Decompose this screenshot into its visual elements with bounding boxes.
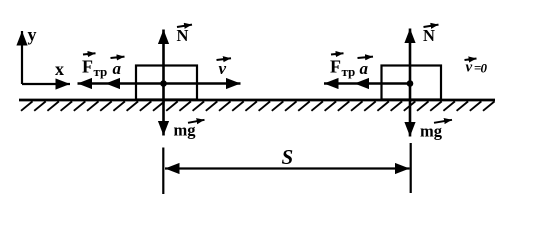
vector hat over F (right) [331, 53, 344, 54]
svg-text:F: F [330, 57, 341, 77]
svg-text:mg: mg [420, 122, 443, 141]
block 1 center dot [160, 80, 167, 87]
svg-text:a: a [113, 59, 122, 78]
vector hat over N (left) [177, 25, 192, 27]
friction force arrow (left block) [78, 82, 164, 85]
force N arrow (right block) [409, 29, 412, 84]
friction force arrow (right block) [324, 82, 410, 85]
svg-text:тр: тр [342, 64, 356, 79]
svg-text:mg: mg [174, 121, 197, 140]
ground line [19, 99, 495, 102]
vector hat over N (right) [424, 25, 439, 27]
force mg arrow (right block) [409, 84, 412, 137]
vector hat over mg (right) [434, 120, 452, 123]
svg-text:N: N [423, 26, 435, 45]
acceleration arrowhead (right block) [355, 78, 370, 89]
svg-text:N: N [177, 26, 189, 45]
force N arrow (left block) [162, 30, 165, 84]
svg-text:F: F [82, 57, 93, 77]
vector hat over v=0 [465, 59, 477, 61]
velocity v arrow [164, 82, 241, 85]
svg-text:a: a [360, 59, 369, 78]
vector hat over mg (left) [188, 120, 205, 123]
svg-text:S: S [282, 145, 294, 169]
force mg arrow (left block) [162, 84, 165, 136]
svg-text:0: 0 [481, 61, 488, 76]
svg-text:y: y [28, 25, 37, 45]
acceleration arrowhead (left block) [106, 78, 121, 89]
vector hat over a (left) [111, 57, 125, 58]
x-axis [22, 83, 70, 85]
distance S double arrow [165, 167, 410, 169]
dimension tick right [410, 143, 412, 193]
svg-text:тр: тр [94, 64, 108, 79]
svg-text:v: v [219, 59, 227, 78]
block 2 center dot [407, 80, 414, 87]
ground hatching [21, 101, 495, 110]
dimension tick left [162, 148, 164, 195]
y-axis [21, 31, 23, 84]
vector hat over a (right) [358, 57, 374, 58]
vector hat over v (left) [217, 58, 232, 60]
block 2 (right, stopped) [382, 66, 442, 100]
vector hat over F (left) [83, 53, 96, 54]
block 1 (left, moving) [136, 66, 197, 100]
svg-text:v: v [466, 60, 473, 76]
svg-text:x: x [55, 59, 64, 79]
